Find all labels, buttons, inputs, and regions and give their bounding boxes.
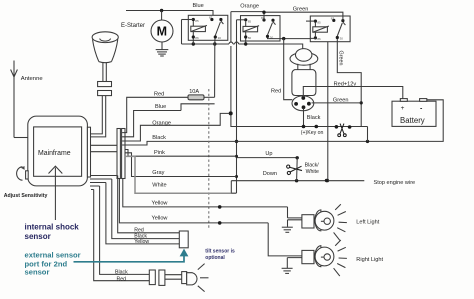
wire top blue bus: [126, 3, 213, 20]
wire down / stop engine line: [231, 171, 415, 193]
svg-text:30: 30: [218, 36, 222, 40]
svg-text:Stop engine wire: Stop engine wire: [374, 180, 416, 186]
svg-text:E-Starter: E-Starter: [121, 23, 145, 29]
wire orange feed + bus: [122, 113, 229, 141]
tilt sensor connector: [179, 231, 188, 248]
adjust sensitivity knob: [4, 166, 48, 199]
wires tab to connector: [91, 145, 118, 151]
svg-text:Red: Red: [271, 89, 281, 95]
wire red+12v to battery: [303, 81, 403, 98]
svg-text:Battery: Battery: [400, 116, 425, 125]
svg-text:86: 86: [248, 36, 252, 40]
tilt sensor note: [205, 248, 235, 260]
wires mainframe bottom to sensors: [90, 176, 179, 283]
svg-text:10A: 10A: [189, 89, 199, 95]
svg-text:optional: optional: [205, 255, 225, 261]
wire green top bus: [262, 6, 343, 20]
wire red to ignition: [271, 39, 292, 100]
external sensor port label: [25, 250, 81, 276]
svg-text:Yellow: Yellow: [152, 215, 169, 221]
antenna: [11, 61, 44, 138]
horn stem wires: [103, 63, 106, 82]
svg-text:87: 87: [209, 15, 213, 19]
wire yellow bus 1: [123, 179, 288, 209]
svg-text:Gray: Gray: [152, 170, 164, 176]
scissors on black/white wire: [286, 164, 302, 175]
svg-text:Antenne: Antenne: [21, 76, 44, 82]
svg-text:Black/: Black/: [305, 163, 320, 169]
svg-text:Pink: Pink: [154, 150, 165, 156]
internal shock sensor arrow: [49, 166, 63, 220]
wire relay3 switch to green net: [337, 39, 363, 127]
ignition connector circle with pins: [292, 96, 314, 111]
svg-text:85: 85: [195, 19, 199, 23]
wire green from ignition: [312, 97, 362, 103]
svg-text:86: 86: [317, 37, 321, 41]
svg-text:Down: Down: [263, 171, 277, 177]
svg-text:Right Light: Right Light: [356, 257, 383, 263]
svg-text:Yellow: Yellow: [134, 239, 149, 245]
svg-text:Black: Black: [152, 135, 166, 141]
wire relay2 coil stub / long white vertical: [235, 20, 246, 193]
battery: [392, 99, 436, 127]
svg-text:(+)Key on: (+)Key on: [301, 130, 324, 136]
wire white bus: [125, 156, 231, 193]
internal shock sensor label: [25, 222, 80, 241]
svg-text:sensor: sensor: [25, 232, 51, 241]
svg-text:Blue: Blue: [193, 3, 204, 9]
svg-text:tilt sensor is: tilt sensor is: [205, 248, 235, 254]
svg-text:Green: Green: [337, 51, 343, 66]
mainframe box: [28, 116, 88, 186]
motor M (E-Starter): [121, 11, 173, 43]
svg-text:30: 30: [340, 37, 344, 41]
ground below motor: [156, 42, 169, 56]
wire relay3 coil down to stop line: [326, 42, 329, 183]
horn wires to mainframe: [90, 96, 106, 137]
svg-text:White: White: [306, 169, 319, 175]
connector bars J1: [117, 129, 125, 179]
wire orange vertical to key-on: [229, 12, 368, 127]
wire orange top bus: [231, 4, 264, 21]
svg-text:M: M: [157, 24, 167, 38]
ignition switch body: [290, 49, 318, 96]
relay U2 (orange) box: [241, 16, 281, 41]
wire relay2 pins: [244, 38, 310, 46]
svg-text:internal shock: internal shock: [25, 222, 80, 231]
svg-text:85: 85: [317, 21, 321, 25]
horn (siren bell): [92, 32, 118, 63]
svg-text:Mainframe: Mainframe: [38, 150, 71, 157]
wire relay1 pins down: [193, 39, 215, 98]
svg-text:+: +: [401, 105, 405, 112]
svg-text:external sensor: external sensor: [25, 250, 81, 259]
key-on wire junctions: [301, 125, 368, 142]
svg-text:Green: Green: [293, 6, 309, 12]
ground right lamp: [282, 268, 293, 273]
svg-text:Adjust Sensitivity: Adjust Sensitivity: [4, 193, 48, 199]
svg-text:Red: Red: [154, 92, 164, 98]
svg-text:sensor: sensor: [25, 268, 50, 277]
svg-text:Red: Red: [117, 276, 127, 282]
wire right lamp leads: [268, 223, 302, 268]
wire black feed + bus to battery loop: [122, 100, 443, 145]
lamp right light: [302, 240, 384, 276]
dashed vertical line: [208, 89, 210, 228]
svg-text:Left Light: Left Light: [356, 219, 379, 225]
siren speaker: [187, 264, 209, 292]
svg-text:Black: Black: [115, 269, 128, 275]
wire red feed + bus: [122, 92, 215, 133]
svg-text:Green: Green: [333, 97, 349, 103]
svg-text:Orange: Orange: [240, 4, 259, 10]
wire gray bus: [125, 153, 237, 177]
wire black from ignition: [304, 109, 321, 127]
horn connector block 1: [98, 82, 112, 87]
svg-text:Yellow: Yellow: [152, 200, 169, 206]
fuse 10A: [188, 89, 204, 100]
black/white cut wire with scissors: [297, 158, 320, 181]
mainframe right tab: [87, 127, 90, 177]
ground left lamp: [282, 227, 293, 232]
svg-text:White: White: [152, 183, 166, 189]
wire relay1 coil stub + bus A: [182, 20, 303, 50]
scissors on key-on wire: [338, 124, 346, 137]
svg-text:Black: Black: [307, 115, 321, 121]
svg-text:Blue: Blue: [155, 104, 166, 110]
wire relay3 left stubs: [282, 21, 315, 40]
siren connector bars: [149, 270, 186, 285]
horn connector block 2: [98, 91, 112, 96]
wire pink bus: [125, 150, 237, 157]
wire left lamp leads: [288, 207, 302, 227]
lamp left light: [302, 204, 380, 240]
svg-text:Up: Up: [265, 151, 272, 157]
wire yellow bus 2: [119, 179, 268, 225]
wire blue feed + bus: [122, 104, 215, 137]
relay U3 (green) box: [310, 16, 350, 42]
svg-text:86: 86: [195, 36, 199, 40]
svg-text:Red+12v: Red+12v: [334, 81, 357, 87]
svg-text:Orange: Orange: [152, 121, 171, 127]
teal pointer line and arrow: [74, 249, 189, 262]
svg-text:87: 87: [331, 16, 335, 20]
svg-text:85: 85: [248, 19, 252, 23]
wire up segment: [237, 151, 299, 159]
relay U1 (blue) box: [188, 15, 228, 40]
